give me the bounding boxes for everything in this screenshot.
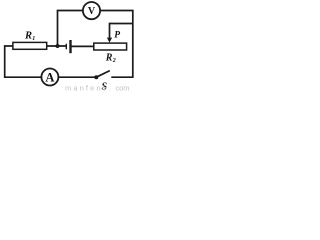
voltmeter V <box>83 2 100 19</box>
wire: battery to R2 left terminal <box>72 45 95 47</box>
switch S pivot dot <box>94 75 98 79</box>
svg-text:R: R <box>24 30 32 41</box>
node junction dot <box>56 44 60 48</box>
label R2 <box>105 53 116 65</box>
switch S lever (open) <box>96 71 110 78</box>
wire: R1 right terminal to battery <box>47 45 67 47</box>
ammeter A <box>41 69 58 86</box>
rheostat R2 <box>94 43 127 50</box>
svg-text:V: V <box>88 6 96 17</box>
wire: voltmeter tap up from node and top run to voltmeter <box>58 11 84 47</box>
wire: ammeter to switch pivot <box>59 76 97 78</box>
resistor R1 <box>13 42 47 49</box>
svg-text:2: 2 <box>112 58 116 64</box>
svg-text:R: R <box>105 53 113 64</box>
wire: left edge and bottom run from R1 to ammeter <box>5 46 42 77</box>
svg-text:1: 1 <box>32 36 35 42</box>
battery negative plate (short) <box>65 44 67 50</box>
label R1 <box>24 30 35 42</box>
wire: voltmeter to right edge, down right edge, bottom run to switch <box>100 11 133 78</box>
svg-text:manfen5.: manfen5. <box>65 84 111 93</box>
wiper arrowhead onto R2 <box>107 38 112 43</box>
wire: wiper vertical drop <box>109 23 111 39</box>
svg-text:P: P <box>114 30 120 40</box>
battery positive plate (tall) <box>69 40 71 53</box>
svg-text:A: A <box>45 71 54 85</box>
watermark manfen5.com <box>65 84 130 93</box>
wire: wiper horizontal link to right edge <box>110 23 133 25</box>
svg-text:com: com <box>116 84 130 93</box>
